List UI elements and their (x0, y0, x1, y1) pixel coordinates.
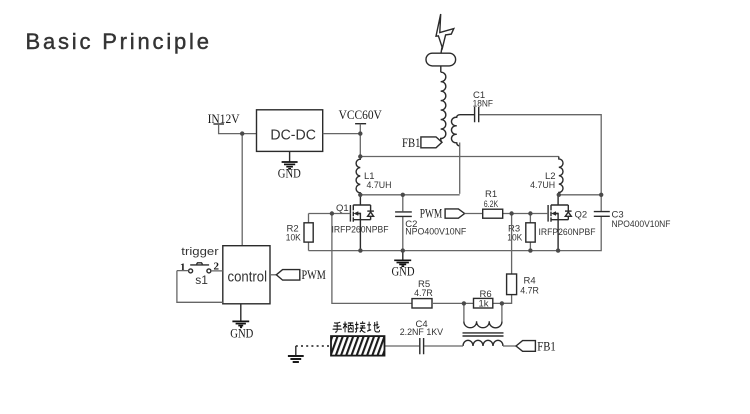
svg-text:4.7R: 4.7R (520, 285, 539, 296)
svg-text:PWM: PWM (302, 268, 326, 282)
svg-text:IRFP260NPBF: IRFP260NPBF (539, 227, 596, 238)
svg-text:1: 1 (180, 261, 186, 273)
svg-text:PWM: PWM (420, 206, 443, 220)
svg-text:Q1: Q1 (336, 203, 349, 214)
svg-text:10K: 10K (507, 232, 523, 243)
svg-text:IRFP260NPBF: IRFP260NPBF (332, 225, 389, 236)
svg-text:6.2K: 6.2K (484, 199, 499, 210)
svg-text:1k: 1k (479, 299, 489, 310)
svg-text:NPO400V10NF: NPO400V10NF (405, 227, 466, 238)
svg-text:10K: 10K (286, 232, 302, 243)
svg-text:VCC60V: VCC60V (339, 107, 383, 122)
svg-text:GND: GND (392, 265, 415, 279)
svg-text:4.7UH: 4.7UH (367, 180, 392, 191)
svg-text:GND: GND (230, 326, 253, 340)
svg-text:s1: s1 (195, 273, 208, 287)
svg-text:2.2NF 1KV: 2.2NF 1KV (400, 327, 444, 338)
svg-text:4.7UH: 4.7UH (530, 180, 555, 191)
svg-text:trigger: trigger (181, 246, 219, 258)
svg-text:4.7R: 4.7R (414, 288, 433, 299)
svg-text:GND: GND (278, 167, 301, 181)
svg-text:control: control (228, 270, 268, 286)
svg-text:DC-DC: DC-DC (270, 128, 316, 144)
svg-text:FB1: FB1 (537, 339, 556, 353)
svg-text:NPO400V10NF: NPO400V10NF (612, 219, 671, 230)
svg-text:18NF: 18NF (473, 99, 493, 110)
svg-text:Basic Principle: Basic Principle (26, 29, 212, 54)
svg-text:FB1: FB1 (402, 136, 421, 150)
svg-text:Q2: Q2 (575, 210, 588, 221)
